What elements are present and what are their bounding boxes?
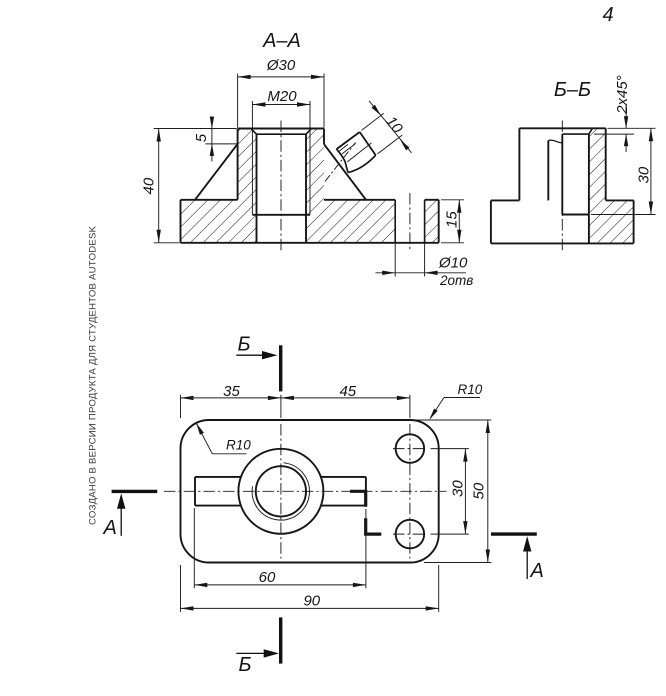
section trace А right [491,534,544,582]
svg-text:10: 10 [382,113,406,137]
boss right edge [323,129,325,145]
angled boss intersection curve [348,155,375,172]
svg-text:35: 35 [223,383,240,400]
radius R10 top right [429,382,482,420]
centerline of threaded hole M20 [280,121,282,252]
hatching base left [181,200,257,243]
dimension 30 (plan) [431,449,469,534]
base right edge [633,200,635,243]
base top left [491,199,520,201]
dimension 10 (angled boss length) [362,101,412,154]
dimension 5 [193,117,237,162]
svg-text:2x45°: 2x45° [614,75,631,115]
angled boss inner mouth line 2 [342,144,356,154]
svg-text:А: А [103,517,117,539]
svg-text:А: А [530,560,544,582]
svg-text:А–А: А–А [262,30,301,52]
hole Ø10 top [396,434,425,463]
hatching base right sliver [425,200,439,243]
dimension 15 [441,200,464,243]
centerline of hole Ø10 (right, in base) [409,193,411,251]
hole chamfer 2x45 [589,129,592,135]
hole far edge / section boundary [588,134,590,243]
section trace А left [103,491,158,539]
top hole horizontal centerline [393,448,427,450]
base bottom [491,242,634,244]
dimension M20 [252,88,310,128]
rib slot right edge [365,477,367,506]
bottom hole horizontal centerline [393,533,427,535]
exterior boss edge [547,140,549,200]
hole minor right [305,134,307,243]
base top middle segment [324,199,395,201]
svg-text:M20: M20 [267,88,297,105]
thread major arc (3/4) [252,463,309,520]
rib slot bottom line left [195,505,241,507]
svg-text:Б: Б [239,654,252,676]
hatching wall and base [589,128,634,243]
hole minor left [256,134,258,243]
hatching left boss wall [238,129,257,200]
chamfer bottom edge [562,133,589,135]
left rib slope [195,144,238,200]
base left edge [490,200,492,243]
thread major diameter left (thin) [251,129,253,215]
wall top edge [519,127,605,129]
hole bottom [562,214,589,216]
dimension 40 [141,129,237,243]
rib slot left edge [194,477,196,506]
svg-text:60: 60 [259,569,276,586]
hole near edge [561,134,563,214]
boss left edge [237,129,239,200]
dimension Ø30 [238,57,324,128]
dimension 35 [181,383,281,418]
angled boss axis centerline [325,143,356,182]
base right edge [438,200,440,243]
svg-text:R10: R10 [226,437,251,452]
centerline of angled hole [561,121,563,252]
hole Ø10 right edge [424,200,426,243]
thread major diameter right (thin) [309,129,311,215]
svg-text:45: 45 [339,383,356,400]
dimension 30 (B-B) [591,128,656,214]
svg-text:5: 5 [193,133,210,142]
dimension 90 [181,565,439,612]
angled boss inner wall line [347,143,371,162]
base top right segment [425,199,439,201]
boss outer circle Ø30 [238,449,323,534]
svg-text:15: 15 [444,211,461,228]
dimension 45 [281,383,410,418]
main horizontal centerline [164,490,447,492]
hole Ø10 left edge [394,200,396,243]
svg-text:Ø10: Ø10 [438,255,468,272]
thread chamfer left [251,129,257,135]
right rib slope [324,144,366,200]
svg-text:СОЗДАНО В ВЕРСИИ ПРОДУКТА ДЛЯ: СОЗДАНО В ВЕРСИИ ПРОДУКТА ДЛЯ СТУДЕНТОВ … [88,225,99,525]
svg-text:Б: Б [238,334,251,356]
svg-text:90: 90 [303,592,320,609]
thread minor circle [256,466,306,516]
svg-text:30: 30 [450,480,467,497]
thread chamfer bottom edge [257,133,307,135]
dimension 60 [194,508,366,588]
svg-text:Ø30: Ø30 [266,57,296,74]
dimension 2x45 [594,75,656,152]
angled boss inner mouth line 1 [339,144,348,151]
svg-text:50: 50 [471,482,488,499]
radius R10 upper left [196,423,251,454]
boss vertical centerline [280,424,282,559]
svg-text:40: 40 [141,177,158,194]
hatching right boss wall [306,129,324,200]
svg-text:30: 30 [636,166,653,183]
section step mark 1 [350,491,366,506]
thread chamfer right [306,129,312,135]
base bottom [181,242,439,244]
dimension Ø10 2 holes [375,244,473,289]
base top right [606,199,634,201]
svg-text:Б–Б: Б–Б [554,79,591,101]
base left edge [180,200,182,243]
base top left segment [181,199,238,201]
break squiggle [548,140,562,143]
svg-text:R10: R10 [458,382,483,397]
hatching base middle [306,200,395,243]
thread bottom [252,214,310,216]
holes vertical centerline [409,424,411,559]
boss outline top [238,128,324,130]
angled boss left horn [337,149,349,173]
rib slot bottom line right [321,505,366,507]
dimension 50 [414,420,491,563]
section trace Б bottom [236,617,280,676]
angled boss top face [337,132,360,149]
svg-text:2отв: 2отв [439,273,473,288]
angled boss right silhouette [360,132,376,155]
wall left edge [518,128,520,200]
section step mark 2 [366,518,382,534]
plate outline rounded rect [181,420,439,563]
svg-text:4: 4 [603,4,614,26]
wall right edge [605,128,607,200]
section trace Б top [236,334,280,392]
rib slot top line right [321,476,366,478]
rib slot top line left [195,476,241,478]
hole Ø10 bottom [396,520,425,549]
